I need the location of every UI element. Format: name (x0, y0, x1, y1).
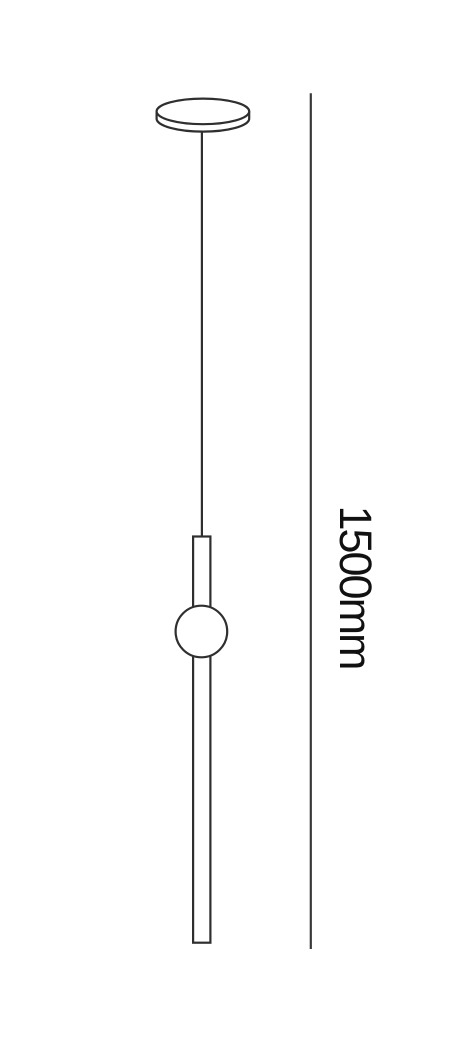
svg-text:1500mm: 1500mm (330, 505, 381, 668)
